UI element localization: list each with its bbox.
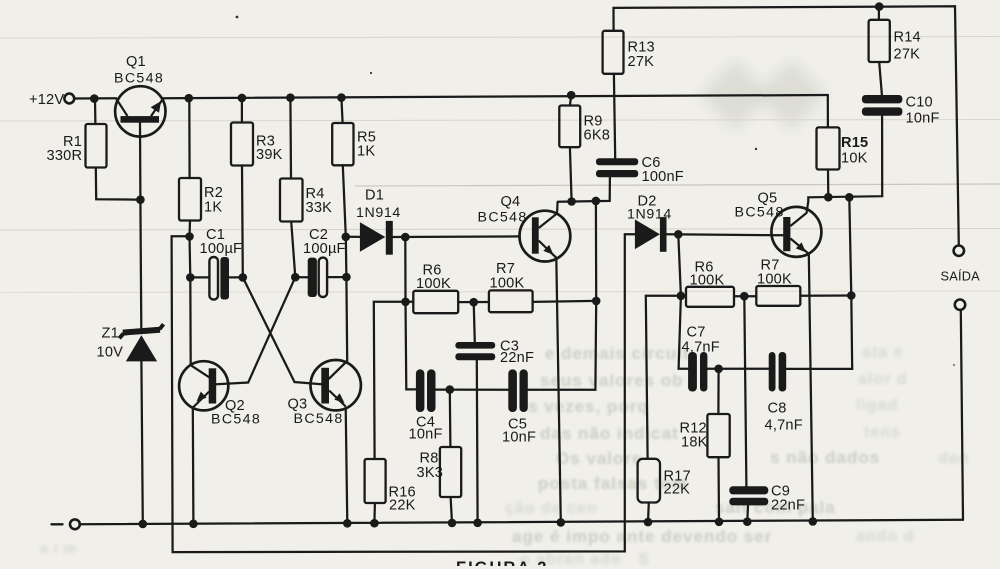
node junction D1 cathode / Q4 base: [401, 233, 410, 242]
wire C2 left stub: [295, 276, 307, 278]
node junction Q5 collector / right riser: [845, 193, 854, 202]
svg-text:10nF: 10nF: [502, 430, 536, 446]
node junction +12V rail / R3: [238, 94, 247, 103]
capacitor C2: [308, 258, 327, 297]
svg-text:R14: R14: [894, 30, 921, 46]
speck: [755, 148, 757, 150]
node junction Q4 collector / riser: [592, 197, 601, 206]
wire R4 bottom lead to C2 left node: [291, 222, 295, 278]
resistor R17: [638, 459, 660, 503]
wire R17 bottom lead: [647, 503, 650, 523]
capacitor C5: [508, 369, 528, 412]
transistor Q2: [179, 361, 228, 410]
wire C1 right stub: [229, 276, 243, 278]
node junction output rail / R14: [875, 2, 884, 11]
wire R5 top lead: [341, 98, 342, 123]
wire R15 bottom lead: [827, 170, 830, 198]
wire +12V rail left of Q1: [74, 97, 116, 99]
wire R3 bottom lead to C1 right node: [241, 166, 244, 278]
wire C4 to C5 through R8 node: [436, 388, 509, 390]
diode D2: [635, 217, 667, 252]
node junction C1 right / R3: [239, 273, 248, 282]
node junction R7 right riser: [592, 297, 601, 306]
node junction R7b right riser: [847, 291, 856, 300]
svg-text:1N914: 1N914: [356, 205, 401, 221]
wire R9 top lead: [570, 95, 571, 105]
wire R7b right to riser node: [800, 294, 851, 297]
svg-text:R15: R15: [841, 135, 868, 151]
svg-text:27K: 27K: [894, 47, 921, 63]
wire R16 bottom lead: [373, 503, 376, 523]
svg-text:BC548: BC548: [735, 205, 785, 221]
wire C9 top lead from R6b-R7b node: [744, 296, 746, 486]
speck: [953, 364, 955, 366]
svg-text:4,7nF: 4,7nF: [682, 340, 720, 356]
svg-text:10nF: 10nF: [409, 427, 443, 443]
node junction R6b-R7b / C9: [740, 292, 749, 301]
node junction C4-C5 / R8: [446, 385, 455, 394]
wire D1 cathode to Q4 base: [393, 235, 520, 238]
svg-text:Z1: Z1: [102, 326, 119, 342]
node SAIDA upper terminal: [954, 246, 964, 256]
node SAIDA lower terminal: [955, 300, 965, 310]
wire R2 bottom lead: [188, 221, 191, 237]
transistor Q5: [771, 202, 821, 257]
faint bleed-through rule line: [0, 291, 1000, 293]
svg-text:10V: 10V: [97, 345, 124, 361]
wire C5 right to R7 right node riser: [528, 201, 596, 390]
node junction Q4 collector / R9: [567, 197, 576, 206]
svg-text:33K: 33K: [306, 200, 333, 216]
capacitor C8: [769, 352, 786, 392]
transistor Q3: [311, 360, 361, 410]
svg-text:100µF: 100µF: [200, 241, 243, 257]
resistor R6: [413, 291, 458, 313]
node +12V terminal: [64, 94, 74, 104]
node junction D2 cathode / Q5 base: [674, 230, 683, 239]
wire C3 bottom lead to ground: [476, 360, 479, 523]
node junction Q2 collector node / feedback: [185, 232, 194, 241]
node junction R6b left / D2 node: [677, 292, 686, 301]
resistor R8: [440, 447, 461, 497]
node junction ground / Q3 emitter: [343, 519, 352, 528]
faint bleed-through rule line: [355, 184, 1000, 186]
wire Q2 emitter to ground: [192, 408, 195, 524]
node junction ground / R12: [715, 518, 724, 527]
svg-text:330R: 330R: [47, 148, 83, 164]
capacitor C7: [688, 352, 707, 392]
svg-text:100nF: 100nF: [642, 169, 684, 185]
svg-text:FIGURA 2: FIGURA 2: [456, 559, 548, 566]
wire minus lead: [52, 523, 63, 525]
wire R6b to R7b through C9 node: [734, 295, 756, 297]
wire R6 left node down to C4: [406, 302, 416, 390]
resistor R6b: [686, 287, 734, 307]
svg-text:D1: D1: [365, 188, 384, 204]
wire R14 bottom lead: [879, 62, 882, 95]
wire R7 right to riser: [533, 301, 597, 302]
svg-text:C8: C8: [768, 401, 787, 417]
wire R6 to R7 through C3 node: [458, 301, 489, 303]
wire C10 bottom to Q5 collector wire: [808, 116, 882, 202]
svg-text:22K: 22K: [389, 498, 416, 514]
capacitor C3: [455, 342, 495, 360]
node junction ground / Q5 emitter: [809, 517, 818, 526]
wire R4 top lead: [289, 98, 292, 179]
wire D1 node down to R6 left node: [404, 237, 406, 302]
resistor R7b: [756, 286, 800, 306]
capacitor C10: [862, 95, 903, 116]
wire Q3 emitter to ground: [346, 408, 348, 524]
wire D2 cathode to Q5 base: [667, 234, 784, 235]
transistor Q1: [115, 86, 165, 136]
svg-text:10nF: 10nF: [906, 111, 940, 127]
diode D1: [360, 221, 393, 255]
resistor R13: [603, 31, 624, 74]
svg-text:4,7nF: 4,7nF: [765, 418, 803, 434]
faint bleed-through rule line: [0, 37, 1000, 39]
node junction Q1 base / R1 / Z1: [136, 195, 145, 204]
resistor R3: [231, 123, 253, 166]
svg-text:Q1: Q1: [126, 54, 146, 70]
node junction ground / R17: [644, 518, 653, 527]
svg-text:100K: 100K: [757, 272, 792, 288]
resistor R2: [179, 178, 201, 221]
wire Z1 to ground: [141, 362, 142, 524]
node junction ground / R8: [448, 519, 457, 528]
svg-text:39K: 39K: [256, 147, 283, 163]
wire D1 anode stub: [346, 236, 360, 238]
node junction C1 left: [186, 273, 195, 282]
resistor R1: [86, 124, 107, 168]
node junction ground / C9: [743, 517, 752, 526]
resistor R7: [489, 290, 533, 312]
wire top rail R13 to output corner: [614, 6, 959, 245]
wire R14 top lead: [878, 7, 880, 20]
speck: [236, 16, 239, 19]
wire C1 left stub: [190, 276, 209, 278]
wire Q4 collector wire to C6: [558, 177, 610, 201]
wire C9 bottom lead: [746, 505, 749, 521]
wire C3 top lead: [474, 302, 475, 342]
wire R5 bottom through D1 node and C2 right node to Q3 collector: [329, 165, 347, 378]
node ground terminal: [70, 519, 80, 529]
wire Q5 emitter to ground: [809, 254, 813, 522]
faint bleed-through rule line: [0, 229, 1000, 231]
wire R15 top lead from rail: [827, 95, 829, 127]
resistor R5: [332, 123, 353, 165]
wire R8 top lead: [449, 390, 452, 447]
svg-text:BC548: BC548: [211, 412, 261, 428]
wire R2 top lead: [188, 98, 191, 178]
node junction ground / Q2 emitter: [189, 520, 198, 529]
wire C8 right to right riser: [786, 197, 852, 369]
svg-text:3K3: 3K3: [417, 465, 444, 481]
wire R1 bottom lead to Q1 base node: [96, 168, 141, 200]
node junction +12V rail / R2: [185, 94, 194, 103]
svg-text:1N914: 1N914: [627, 207, 672, 223]
wire R12 top lead: [717, 369, 719, 414]
node junction ground / Q4 emitter: [557, 518, 566, 527]
svg-text:BC548: BC548: [114, 71, 164, 87]
svg-text:1K: 1K: [357, 144, 375, 160]
svg-text:C7: C7: [687, 325, 706, 341]
resistor R16: [365, 459, 386, 503]
wire R1 top lead: [94, 99, 97, 124]
resistor R15: [817, 127, 840, 169]
svg-text:22nF: 22nF: [771, 498, 805, 514]
svg-text:SAÍDA: SAÍDA: [941, 269, 981, 284]
node junction ground / C3: [473, 519, 482, 528]
svg-text:100K: 100K: [490, 276, 525, 292]
resistor R12: [707, 414, 729, 457]
node junction ground / R16: [370, 519, 379, 528]
zener Z1: [119, 324, 163, 361]
wire D2 node down to R6b left node and C7: [678, 234, 688, 368]
wire Q4 emitter to ground: [556, 258, 561, 523]
node junction ground / Z1: [139, 520, 148, 529]
wire Q2 collector node down to C1 left and Q2: [190, 237, 191, 365]
wire R3 top lead: [241, 98, 243, 123]
node junction +12V rail / R1: [90, 94, 99, 103]
resistor R4: [280, 179, 303, 222]
wire cross-couple C1 right to Q3 base: [243, 277, 322, 384]
svg-text:Q4: Q4: [501, 194, 521, 210]
node junction C2 right / R5: [342, 273, 351, 282]
capacitor C1: [209, 257, 229, 300]
node junction C7-C8 / R12: [714, 365, 723, 374]
node junction Q5 collector / R15: [824, 193, 833, 202]
resistor R14: [869, 20, 890, 62]
node junction Q3 collector node / D1 anode: [342, 233, 351, 242]
node junction R6-R7 / C3: [469, 298, 478, 307]
wire +12V rail Q1 to R15 corner: [163, 95, 827, 98]
wire Q1 base lead: [140, 123, 141, 329]
node junction R6 left: [401, 298, 410, 307]
svg-text:+12V: +12V: [29, 92, 64, 108]
svg-text:22nF: 22nF: [500, 350, 534, 366]
wire R13 lead through rail to C6 top: [614, 74, 615, 159]
capacitor C9: [729, 486, 768, 505]
svg-text:100K: 100K: [416, 276, 451, 292]
svg-text:18K: 18K: [681, 435, 708, 451]
svg-text:22K: 22K: [664, 482, 691, 498]
wire R6b left node to R17: [646, 296, 686, 459]
node junction +12V rail / R4: [286, 93, 295, 102]
wire R8 bottom lead: [451, 497, 452, 523]
svg-text:27K: 27K: [628, 54, 655, 70]
wire R6 left node to R16: [374, 302, 414, 459]
wire cross-couple C2 left to Q2 base: [216, 277, 295, 384]
node junction +12V rail / R5: [337, 93, 346, 102]
speck: [370, 72, 372, 74]
wire SAIDA lower terminal to ground rail: [961, 310, 963, 520]
node junction +12V rail / R9: [567, 91, 576, 100]
svg-text:C10: C10: [906, 95, 933, 111]
svg-text:100µF: 100µF: [303, 241, 346, 257]
wire R9 bottom lead: [570, 147, 572, 201]
wire C2 right stub: [327, 276, 346, 278]
wire R12 bottom lead: [717, 457, 720, 522]
resistor R9: [559, 106, 580, 148]
wire C7 right to C8 left through R12 node: [707, 368, 768, 370]
transistor Q4: [520, 202, 571, 262]
node junction C2 left / R4: [291, 273, 300, 282]
wire ground rail: [80, 520, 963, 525]
wire feedback line from Q2 collector node to D2 anode: [172, 234, 635, 552]
svg-text:10K: 10K: [841, 151, 868, 167]
svg-text:1K: 1K: [204, 200, 222, 216]
svg-text:100K: 100K: [690, 273, 725, 289]
svg-text:BC548: BC548: [478, 210, 528, 226]
capacitor C6: [596, 158, 638, 177]
svg-text:BC548: BC548: [294, 411, 344, 427]
svg-text:6K8: 6K8: [584, 128, 611, 144]
capacitor C4: [416, 369, 436, 412]
faint bleed-through rule line: [0, 120, 1000, 122]
